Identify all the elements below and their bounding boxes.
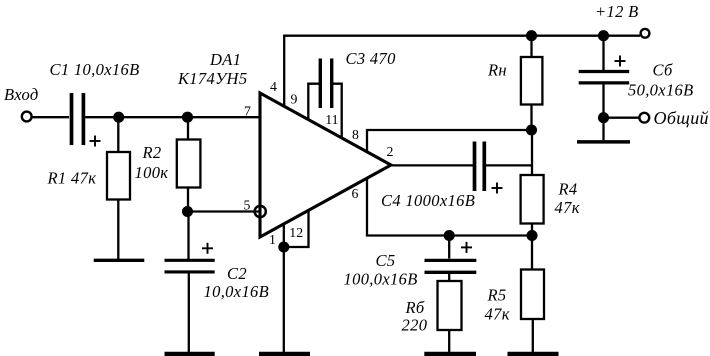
svg-text:7: 7 bbox=[244, 104, 251, 119]
resistor Rn bbox=[521, 57, 543, 105]
svg-text:Вход: Вход bbox=[4, 85, 39, 104]
svg-text:12: 12 bbox=[289, 225, 303, 240]
wire R5 to ground bbox=[532, 319, 534, 354]
+12V terminal bbox=[641, 29, 650, 38]
svg-text:С2: С2 bbox=[227, 264, 247, 283]
resistor R4 bbox=[521, 175, 544, 224]
svg-text:R2: R2 bbox=[142, 143, 162, 162]
wire to R1 bbox=[117, 117, 119, 152]
svg-text:Rб: Rб bbox=[405, 298, 425, 317]
wire node to R4 bbox=[531, 130, 533, 175]
wire node to R5 bbox=[531, 236, 533, 270]
svg-text:100к: 100к bbox=[135, 163, 169, 182]
wire pin 6 feedback bbox=[367, 179, 532, 236]
wire to R2 bbox=[187, 117, 189, 140]
wire rail to Rn bbox=[530, 36, 532, 57]
svg-text:R1 47к: R1 47к bbox=[47, 169, 97, 188]
svg-text:R4: R4 bbox=[558, 180, 578, 199]
svg-text:100,0х16В: 100,0х16В bbox=[344, 270, 418, 289]
capacitor C4 bbox=[475, 142, 485, 192]
ground C2 bbox=[165, 352, 215, 356]
svg-text:Сб: Сб bbox=[653, 61, 673, 80]
svg-text:5: 5 bbox=[244, 198, 251, 213]
wire node to C5 bbox=[448, 236, 450, 259]
svg-text:С4 1000х16В: С4 1000х16В bbox=[381, 191, 475, 210]
resistor R1 bbox=[107, 152, 130, 200]
svg-text:4: 4 bbox=[270, 79, 277, 94]
node junction R2 bbox=[183, 113, 192, 122]
svg-text:9: 9 bbox=[291, 91, 298, 106]
node junction pin8 bbox=[527, 126, 536, 135]
wire C3 right leg pin 11 bbox=[333, 84, 342, 139]
wire R1 to ground bbox=[117, 200, 119, 260]
wire output pin 2 to C4 bbox=[391, 164, 473, 166]
svg-text:220: 220 bbox=[402, 316, 428, 335]
wire C1 to pin 7 bbox=[85, 116, 260, 118]
wire C5 to Rb bbox=[448, 272, 450, 281]
input terminal Вход bbox=[22, 112, 32, 122]
svg-text:С5: С5 bbox=[376, 251, 396, 270]
resistor Rb bbox=[438, 281, 462, 330]
C4 plus sign bbox=[492, 183, 503, 194]
node junction pin1 bbox=[279, 243, 288, 252]
svg-text:8: 8 bbox=[352, 127, 359, 142]
wire pin 12 bbox=[284, 211, 309, 248]
node junction Rn rail bbox=[527, 31, 536, 40]
svg-text:47к: 47к bbox=[555, 198, 580, 217]
wire node to C2 bbox=[187, 212, 189, 261]
ground pin1 bbox=[259, 352, 310, 356]
svg-text:47к: 47к bbox=[485, 305, 510, 324]
ground Cb bbox=[577, 140, 630, 144]
svg-text:С3 470: С3 470 bbox=[346, 49, 397, 68]
ground R5 bbox=[508, 352, 559, 356]
node junction Cb rail bbox=[599, 31, 608, 40]
node junction pin5 bbox=[183, 207, 192, 216]
wire C2 to ground bbox=[188, 272, 190, 354]
node junction C5 bbox=[445, 231, 454, 240]
svg-text:Rн: Rн bbox=[487, 61, 507, 80]
ground R1 bbox=[94, 259, 145, 262]
wire node to Obshchiy terminal bbox=[604, 117, 639, 119]
node junction R1 bbox=[114, 113, 123, 122]
C1 plus sign bbox=[90, 136, 101, 147]
capacitor Cb bbox=[579, 72, 630, 83]
svg-text:Общий: Общий bbox=[654, 108, 709, 128]
svg-text:DA1: DA1 bbox=[209, 50, 241, 69]
svg-text:11: 11 bbox=[325, 112, 338, 127]
wire node to pin 5 bbox=[188, 210, 260, 212]
wire R2 to node bbox=[187, 188, 189, 212]
wire pin 4 to +12V rail bbox=[284, 36, 640, 107]
wire pin 8 bbox=[367, 130, 532, 152]
svg-text:50,0х16В: 50,0х16В bbox=[628, 81, 694, 100]
wire Rb to ground bbox=[448, 330, 450, 354]
Obshchiy terminal bbox=[639, 113, 649, 123]
svg-text:К174УН5: К174УН5 bbox=[177, 69, 247, 88]
wire C4 to R4 column bbox=[486, 164, 532, 166]
node junction R4 bottom bbox=[528, 231, 537, 240]
resistor R2 bbox=[177, 140, 201, 188]
Cb plus sign bbox=[615, 56, 626, 67]
ground Rb bbox=[424, 352, 476, 356]
capacitor C3 bbox=[320, 59, 331, 109]
wire rail to Cb bbox=[602, 36, 604, 72]
svg-text:1: 1 bbox=[269, 232, 276, 247]
C5 plus sign bbox=[461, 242, 472, 253]
node junction Cb bottom bbox=[599, 113, 608, 122]
svg-text:R5: R5 bbox=[487, 286, 507, 305]
svg-text:2: 2 bbox=[387, 144, 394, 159]
capacitor C1 bbox=[72, 93, 84, 145]
wire Cb to node bbox=[602, 83, 604, 140]
svg-text:С1 10,0х16В: С1 10,0х16В bbox=[50, 60, 140, 79]
wire C3 left leg pin 9 bbox=[308, 84, 319, 120]
C2 plus sign bbox=[202, 243, 213, 254]
svg-text:10,0х16В: 10,0х16В bbox=[204, 282, 270, 301]
capacitor C2 bbox=[165, 260, 215, 272]
resistor R5 bbox=[521, 270, 544, 320]
svg-text:6: 6 bbox=[352, 186, 359, 201]
wire Rn to node bbox=[530, 105, 532, 131]
svg-text:+12 В: +12 В bbox=[595, 2, 639, 21]
wire input to C1 bbox=[33, 116, 70, 118]
op-amp DA1 triangle bbox=[260, 93, 391, 237]
wire R4 to node bbox=[531, 224, 533, 236]
pin 5 circle bbox=[255, 206, 266, 217]
capacitor C5 bbox=[425, 260, 477, 272]
wire pin 1 bbox=[283, 224, 285, 355]
